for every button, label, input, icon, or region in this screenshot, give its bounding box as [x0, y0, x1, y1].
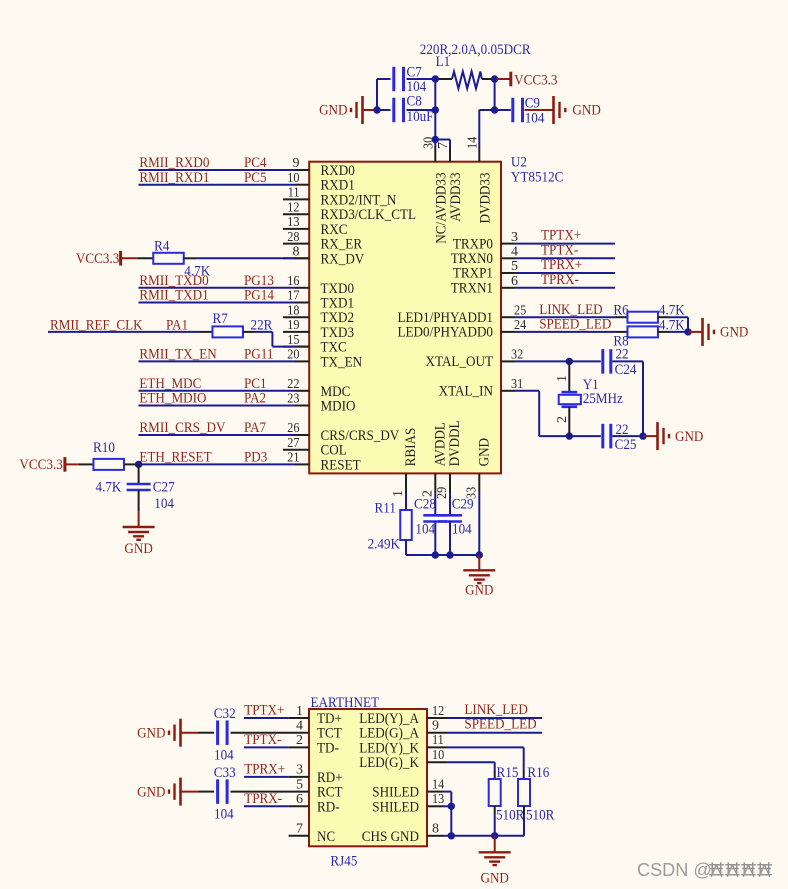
- svg-text:15: 15: [287, 333, 299, 348]
- svg-text:510R: 510R: [496, 808, 524, 824]
- svg-text:CHS GND: CHS GND: [362, 829, 419, 845]
- svg-text:R11: R11: [375, 501, 396, 517]
- svg-text:VCC3.3: VCC3.3: [514, 72, 557, 88]
- svg-text:21: 21: [287, 451, 299, 466]
- svg-text:RXD3/CLK_CTL: RXD3/CLK_CTL: [321, 207, 417, 223]
- svg-text:5: 5: [296, 777, 303, 792]
- svg-text:RXD2/INT_N: RXD2/INT_N: [321, 192, 397, 208]
- svg-text:TPTX-: TPTX-: [244, 732, 281, 748]
- svg-text:14: 14: [465, 137, 480, 149]
- svg-text:TPRX-: TPRX-: [244, 791, 282, 807]
- svg-text:TRXN1: TRXN1: [451, 281, 493, 297]
- svg-text:27: 27: [287, 436, 299, 451]
- svg-text:10: 10: [287, 171, 299, 186]
- svg-text:TPTX+: TPTX+: [244, 703, 284, 719]
- svg-text:20: 20: [287, 348, 299, 363]
- svg-text:PG11: PG11: [244, 347, 273, 363]
- svg-text:NC: NC: [317, 829, 335, 845]
- svg-text:16: 16: [287, 274, 299, 289]
- svg-text:ETH_MDC: ETH_MDC: [139, 376, 201, 392]
- svg-text:2: 2: [296, 733, 303, 748]
- svg-text:17: 17: [287, 289, 299, 304]
- svg-text:RD-: RD-: [317, 799, 340, 815]
- svg-text:PC5: PC5: [244, 170, 267, 186]
- svg-text:2: 2: [555, 416, 570, 423]
- svg-text:CRS/CRS_DV: CRS/CRS_DV: [321, 428, 400, 444]
- svg-text:8: 8: [432, 822, 439, 837]
- svg-text:12: 12: [432, 704, 444, 719]
- svg-text:GND: GND: [572, 103, 601, 119]
- svg-text:26: 26: [287, 421, 299, 436]
- svg-text:22R: 22R: [251, 317, 273, 333]
- svg-text:R4: R4: [154, 238, 170, 254]
- svg-text:LED(Y)_K: LED(Y)_K: [359, 740, 419, 756]
- svg-text:MDIO: MDIO: [321, 399, 356, 415]
- svg-text:RESET: RESET: [321, 457, 361, 473]
- svg-text:104: 104: [154, 496, 174, 512]
- svg-text:TXD0: TXD0: [321, 281, 355, 297]
- svg-text:RXC: RXC: [321, 222, 348, 238]
- svg-text:MDC: MDC: [321, 384, 351, 400]
- svg-text:GND: GND: [465, 582, 494, 598]
- svg-text:NC/AVDD33: NC/AVDD33: [433, 173, 449, 244]
- svg-text:C33: C33: [214, 765, 236, 781]
- svg-text:TXC: TXC: [321, 340, 347, 356]
- svg-text:LINK_LED: LINK_LED: [464, 702, 528, 718]
- svg-text:C29: C29: [452, 497, 474, 513]
- svg-text:4.7K: 4.7K: [659, 317, 685, 333]
- svg-text:RMII_RXD1: RMII_RXD1: [139, 170, 209, 186]
- svg-text:18: 18: [287, 303, 299, 318]
- svg-text:29: 29: [435, 487, 450, 499]
- svg-text:COL: COL: [321, 443, 347, 459]
- svg-text:RJ45: RJ45: [330, 854, 357, 870]
- svg-text:30: 30: [421, 137, 436, 149]
- svg-text:VCC3.3: VCC3.3: [19, 457, 62, 473]
- svg-text:TRXP0: TRXP0: [453, 236, 493, 252]
- svg-text:GND: GND: [476, 438, 492, 467]
- svg-text:RMII_RXD0: RMII_RXD0: [139, 155, 209, 171]
- svg-text:22: 22: [287, 377, 299, 392]
- svg-text:10uF: 10uF: [407, 109, 434, 125]
- svg-text:3: 3: [511, 230, 518, 245]
- svg-text:R16: R16: [527, 765, 549, 781]
- svg-text:LED(G)_A: LED(G)_A: [359, 726, 419, 742]
- svg-text:XTAL_OUT: XTAL_OUT: [426, 354, 494, 370]
- svg-text:6: 6: [511, 274, 518, 289]
- svg-text:TCT: TCT: [317, 726, 342, 742]
- svg-text:PC1: PC1: [244, 376, 267, 392]
- svg-text:LINK_LED: LINK_LED: [539, 302, 603, 318]
- svg-text:LED(Y)_A: LED(Y)_A: [359, 711, 419, 727]
- svg-text:104: 104: [415, 522, 435, 538]
- svg-text:SHILED: SHILED: [372, 785, 419, 801]
- svg-text:SPEED_LED: SPEED_LED: [464, 717, 536, 733]
- svg-text:TRXN0: TRXN0: [451, 251, 493, 267]
- svg-text:L1: L1: [436, 54, 451, 70]
- svg-text:GND: GND: [481, 870, 510, 886]
- svg-text:C25: C25: [615, 437, 637, 453]
- svg-text:25MHz: 25MHz: [583, 391, 623, 407]
- svg-text:TPRX+: TPRX+: [541, 257, 582, 273]
- svg-text:SHILED: SHILED: [372, 799, 419, 815]
- svg-text:C28: C28: [414, 497, 436, 513]
- svg-text:1: 1: [296, 704, 303, 719]
- svg-text:RMII_TXD1: RMII_TXD1: [139, 288, 208, 304]
- svg-text:RXD1: RXD1: [321, 178, 355, 194]
- svg-text:7: 7: [296, 822, 303, 837]
- svg-text:C24: C24: [615, 362, 637, 378]
- svg-text:GND: GND: [124, 541, 153, 557]
- svg-text:104: 104: [525, 110, 545, 126]
- svg-text:24: 24: [514, 318, 526, 333]
- svg-text:GND: GND: [137, 784, 166, 800]
- svg-text:32: 32: [511, 348, 523, 363]
- svg-text:10: 10: [432, 748, 444, 763]
- svg-text:RX_ER: RX_ER: [321, 237, 363, 253]
- svg-text:RD+: RD+: [317, 770, 343, 786]
- svg-text:TPRX+: TPRX+: [244, 761, 285, 777]
- svg-text:AVDD33: AVDD33: [448, 173, 464, 222]
- svg-text:13: 13: [287, 215, 299, 230]
- svg-text:22: 22: [616, 422, 629, 438]
- svg-text:14: 14: [432, 777, 444, 792]
- svg-text:RBIAS: RBIAS: [403, 428, 419, 467]
- svg-text:RMII_CRS_DV: RMII_CRS_DV: [139, 420, 225, 436]
- svg-text:TPTX+: TPTX+: [541, 228, 581, 244]
- svg-text:ETH_MDIO: ETH_MDIO: [139, 391, 206, 407]
- svg-text:9: 9: [293, 156, 300, 171]
- svg-text:DVDD33: DVDD33: [477, 173, 493, 224]
- svg-text:4.7K: 4.7K: [96, 480, 122, 496]
- svg-text:GND: GND: [137, 725, 166, 741]
- svg-text:28: 28: [287, 230, 299, 245]
- svg-text:TPRX-: TPRX-: [541, 272, 579, 288]
- svg-text:GND: GND: [319, 103, 348, 119]
- svg-text:1: 1: [391, 490, 406, 497]
- svg-text:PD3: PD3: [244, 450, 267, 466]
- svg-text:104: 104: [214, 807, 234, 823]
- svg-text:4: 4: [511, 245, 518, 260]
- svg-text:22: 22: [616, 346, 629, 362]
- svg-text:CSDN @: CSDN @: [637, 859, 712, 880]
- svg-text:XTAL_IN: XTAL_IN: [439, 384, 494, 400]
- svg-text:DVDDL: DVDDL: [447, 421, 463, 467]
- svg-text:PC4: PC4: [244, 155, 267, 171]
- svg-text:U2: U2: [511, 155, 527, 171]
- svg-text:TD+: TD+: [317, 711, 342, 727]
- svg-text:6: 6: [296, 792, 303, 807]
- svg-text:RX_DV: RX_DV: [321, 251, 365, 267]
- svg-text:PA2: PA2: [244, 391, 266, 407]
- svg-text:8: 8: [293, 245, 300, 260]
- svg-text:PG14: PG14: [244, 288, 274, 304]
- svg-text:RMII_TX_EN: RMII_TX_EN: [139, 347, 216, 363]
- svg-text:7: 7: [436, 142, 451, 149]
- svg-text:C32: C32: [214, 706, 236, 722]
- svg-text:TX_EN: TX_EN: [321, 354, 363, 370]
- svg-text:GND: GND: [675, 429, 704, 445]
- svg-text:11: 11: [288, 186, 300, 201]
- svg-text:31: 31: [511, 377, 523, 392]
- svg-text:5: 5: [511, 259, 518, 274]
- svg-text:PG13: PG13: [244, 273, 274, 289]
- svg-text:TXD1: TXD1: [321, 296, 355, 312]
- svg-text:TD-: TD-: [317, 740, 339, 756]
- svg-text:C8: C8: [407, 94, 422, 110]
- svg-text:LED1/PHYADD1: LED1/PHYADD1: [398, 310, 494, 326]
- svg-text:TXD2: TXD2: [321, 310, 355, 326]
- svg-text:1: 1: [555, 375, 570, 382]
- svg-text:R10: R10: [93, 440, 115, 456]
- svg-text:104: 104: [452, 522, 472, 538]
- svg-text:RCT: RCT: [317, 785, 343, 801]
- svg-text:EARTHNET: EARTHNET: [311, 695, 380, 711]
- svg-text:GND: GND: [720, 325, 749, 341]
- svg-text:R6: R6: [613, 303, 629, 319]
- svg-text:R7: R7: [213, 311, 229, 327]
- svg-text:2.49K: 2.49K: [368, 537, 401, 553]
- svg-text:9: 9: [432, 719, 439, 734]
- svg-text:ETH_RESET: ETH_RESET: [139, 450, 211, 466]
- svg-text:TPTX-: TPTX-: [541, 242, 578, 258]
- svg-text:VCC3.3: VCC3.3: [76, 251, 119, 267]
- svg-text:12: 12: [287, 200, 299, 215]
- svg-text:TRXP1: TRXP1: [453, 266, 493, 282]
- svg-text:25: 25: [514, 303, 526, 318]
- svg-text:R15: R15: [497, 765, 519, 781]
- svg-text:TXD3: TXD3: [321, 325, 355, 341]
- svg-text:11: 11: [432, 733, 444, 748]
- svg-text:23: 23: [287, 392, 299, 407]
- svg-text:YT8512C: YT8512C: [511, 170, 564, 186]
- svg-text:4.7K: 4.7K: [659, 303, 685, 319]
- svg-text:104: 104: [214, 748, 234, 764]
- svg-text:4: 4: [296, 719, 303, 734]
- svg-text:AVDDL: AVDDL: [432, 422, 448, 466]
- svg-text:SPEED_LED: SPEED_LED: [539, 317, 611, 333]
- svg-text:C27: C27: [153, 480, 175, 496]
- svg-text:13: 13: [432, 792, 444, 807]
- svg-text:C9: C9: [525, 96, 540, 112]
- svg-text:RXD0: RXD0: [321, 163, 355, 179]
- svg-text:PA7: PA7: [244, 420, 267, 436]
- svg-text:4.7K: 4.7K: [184, 264, 210, 280]
- svg-text:LED(G)_K: LED(G)_K: [359, 755, 419, 771]
- svg-text:510R: 510R: [526, 808, 554, 824]
- svg-text:LED0/PHYADD0: LED0/PHYADD0: [398, 325, 494, 341]
- svg-text:3: 3: [296, 763, 303, 778]
- svg-text:19: 19: [287, 318, 299, 333]
